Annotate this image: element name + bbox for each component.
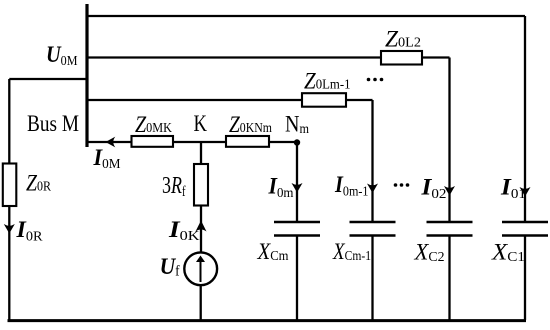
- svg-text:XCm-1: XCm-1: [332, 239, 371, 264]
- svg-text:I01: I01: [500, 174, 526, 202]
- wire branch XCm vertical lower: [296, 236, 298, 321]
- wire bottom rail: [8, 319, 527, 322]
- svg-text:Bus M: Bus M: [27, 111, 79, 136]
- svg-text:Uf: Uf: [160, 254, 180, 280]
- wire branch XCm-1 vertical upper: [371, 100, 373, 222]
- resistor Z0R: [3, 164, 16, 207]
- source inner arrow shaft: [200, 261, 202, 282]
- wire branch XC1 vertical upper: [524, 16, 526, 222]
- wire I0M horizontal: [87, 141, 297, 143]
- svg-text:Z0R: Z0R: [26, 171, 52, 196]
- svg-text:Z0L2: Z0L2: [385, 27, 421, 52]
- svg-text:I0K: I0K: [168, 217, 200, 244]
- wire left horizontal to bus: [9, 78, 87, 80]
- wire source to bottom: [200, 285, 202, 321]
- source Uf circle: [184, 252, 217, 285]
- wire left vertical Z0R branch: [8, 79, 10, 320]
- svg-text:XC2: XC2: [414, 240, 445, 265]
- svg-text:Z0KNm: Z0KNm: [229, 112, 272, 137]
- wire branch XCm vertical upper: [296, 142, 298, 222]
- svg-text:I0M: I0M: [93, 145, 121, 172]
- svg-text:Nm: Nm: [285, 111, 309, 137]
- svg-text:XC1: XC1: [491, 240, 525, 265]
- svg-text:I02: I02: [420, 174, 446, 202]
- resistor Z0MK: [132, 136, 174, 147]
- wire branch XC2 vertical lower: [448, 236, 450, 321]
- arrow I01 down: [520, 187, 531, 197]
- ellipsis top: [367, 78, 371, 82]
- svg-text:Z0Lm-1: Z0Lm-1: [304, 69, 351, 94]
- wire branch XC1 vertical lower: [524, 236, 526, 321]
- wire rail1 top: [87, 15, 525, 17]
- wire Z0Lm-1 to XCm-1 branch: [346, 99, 373, 101]
- capacitor XCm-1 plates: [350, 221, 396, 224]
- svg-text:U0M: U0M: [46, 42, 78, 69]
- wire rail3: [87, 99, 302, 101]
- svg-text:Z0MK: Z0MK: [135, 112, 172, 137]
- wire branch XC2 vertical upper: [448, 58, 450, 223]
- resistor 3Rf: [194, 164, 208, 206]
- resistor Z0L2: [381, 51, 422, 65]
- arrow I0K up: [196, 221, 207, 232]
- capacitor XCm plates: [274, 221, 320, 224]
- wire 3Rf to source: [200, 206, 202, 253]
- arrow I0M pointing left: [106, 137, 116, 148]
- svg-text:I0R: I0R: [15, 217, 43, 244]
- wire rail2: [87, 56, 381, 58]
- node Nm junction dot: [294, 139, 300, 145]
- svg-text:I0m: I0m: [268, 174, 294, 202]
- capacitor XC2 plates: [427, 221, 473, 224]
- capacitor XC1 plates: [502, 221, 548, 224]
- svg-text:K: K: [194, 111, 208, 136]
- source inner arrow head: [196, 256, 205, 263]
- arrow I0R down: [4, 224, 15, 234]
- bus M vertical bar: [85, 4, 88, 147]
- svg-text:3Rf: 3Rf: [162, 172, 186, 200]
- arrow I02 down: [444, 186, 455, 196]
- svg-text:XCm: XCm: [257, 239, 289, 264]
- ellipsis bottom: [394, 183, 398, 187]
- wire Z0L2 to XC2 branch: [422, 56, 450, 58]
- svg-text:I0m-1: I0m-1: [334, 172, 368, 200]
- resistor Z0Lm-1: [302, 93, 346, 107]
- arrow I0m down: [292, 183, 303, 193]
- wire K stub down: [200, 142, 202, 164]
- wire branch XCm-1 vertical lower: [371, 236, 373, 321]
- arrow I0m-1 down: [367, 184, 378, 194]
- resistor Z0KNm: [226, 136, 269, 147]
